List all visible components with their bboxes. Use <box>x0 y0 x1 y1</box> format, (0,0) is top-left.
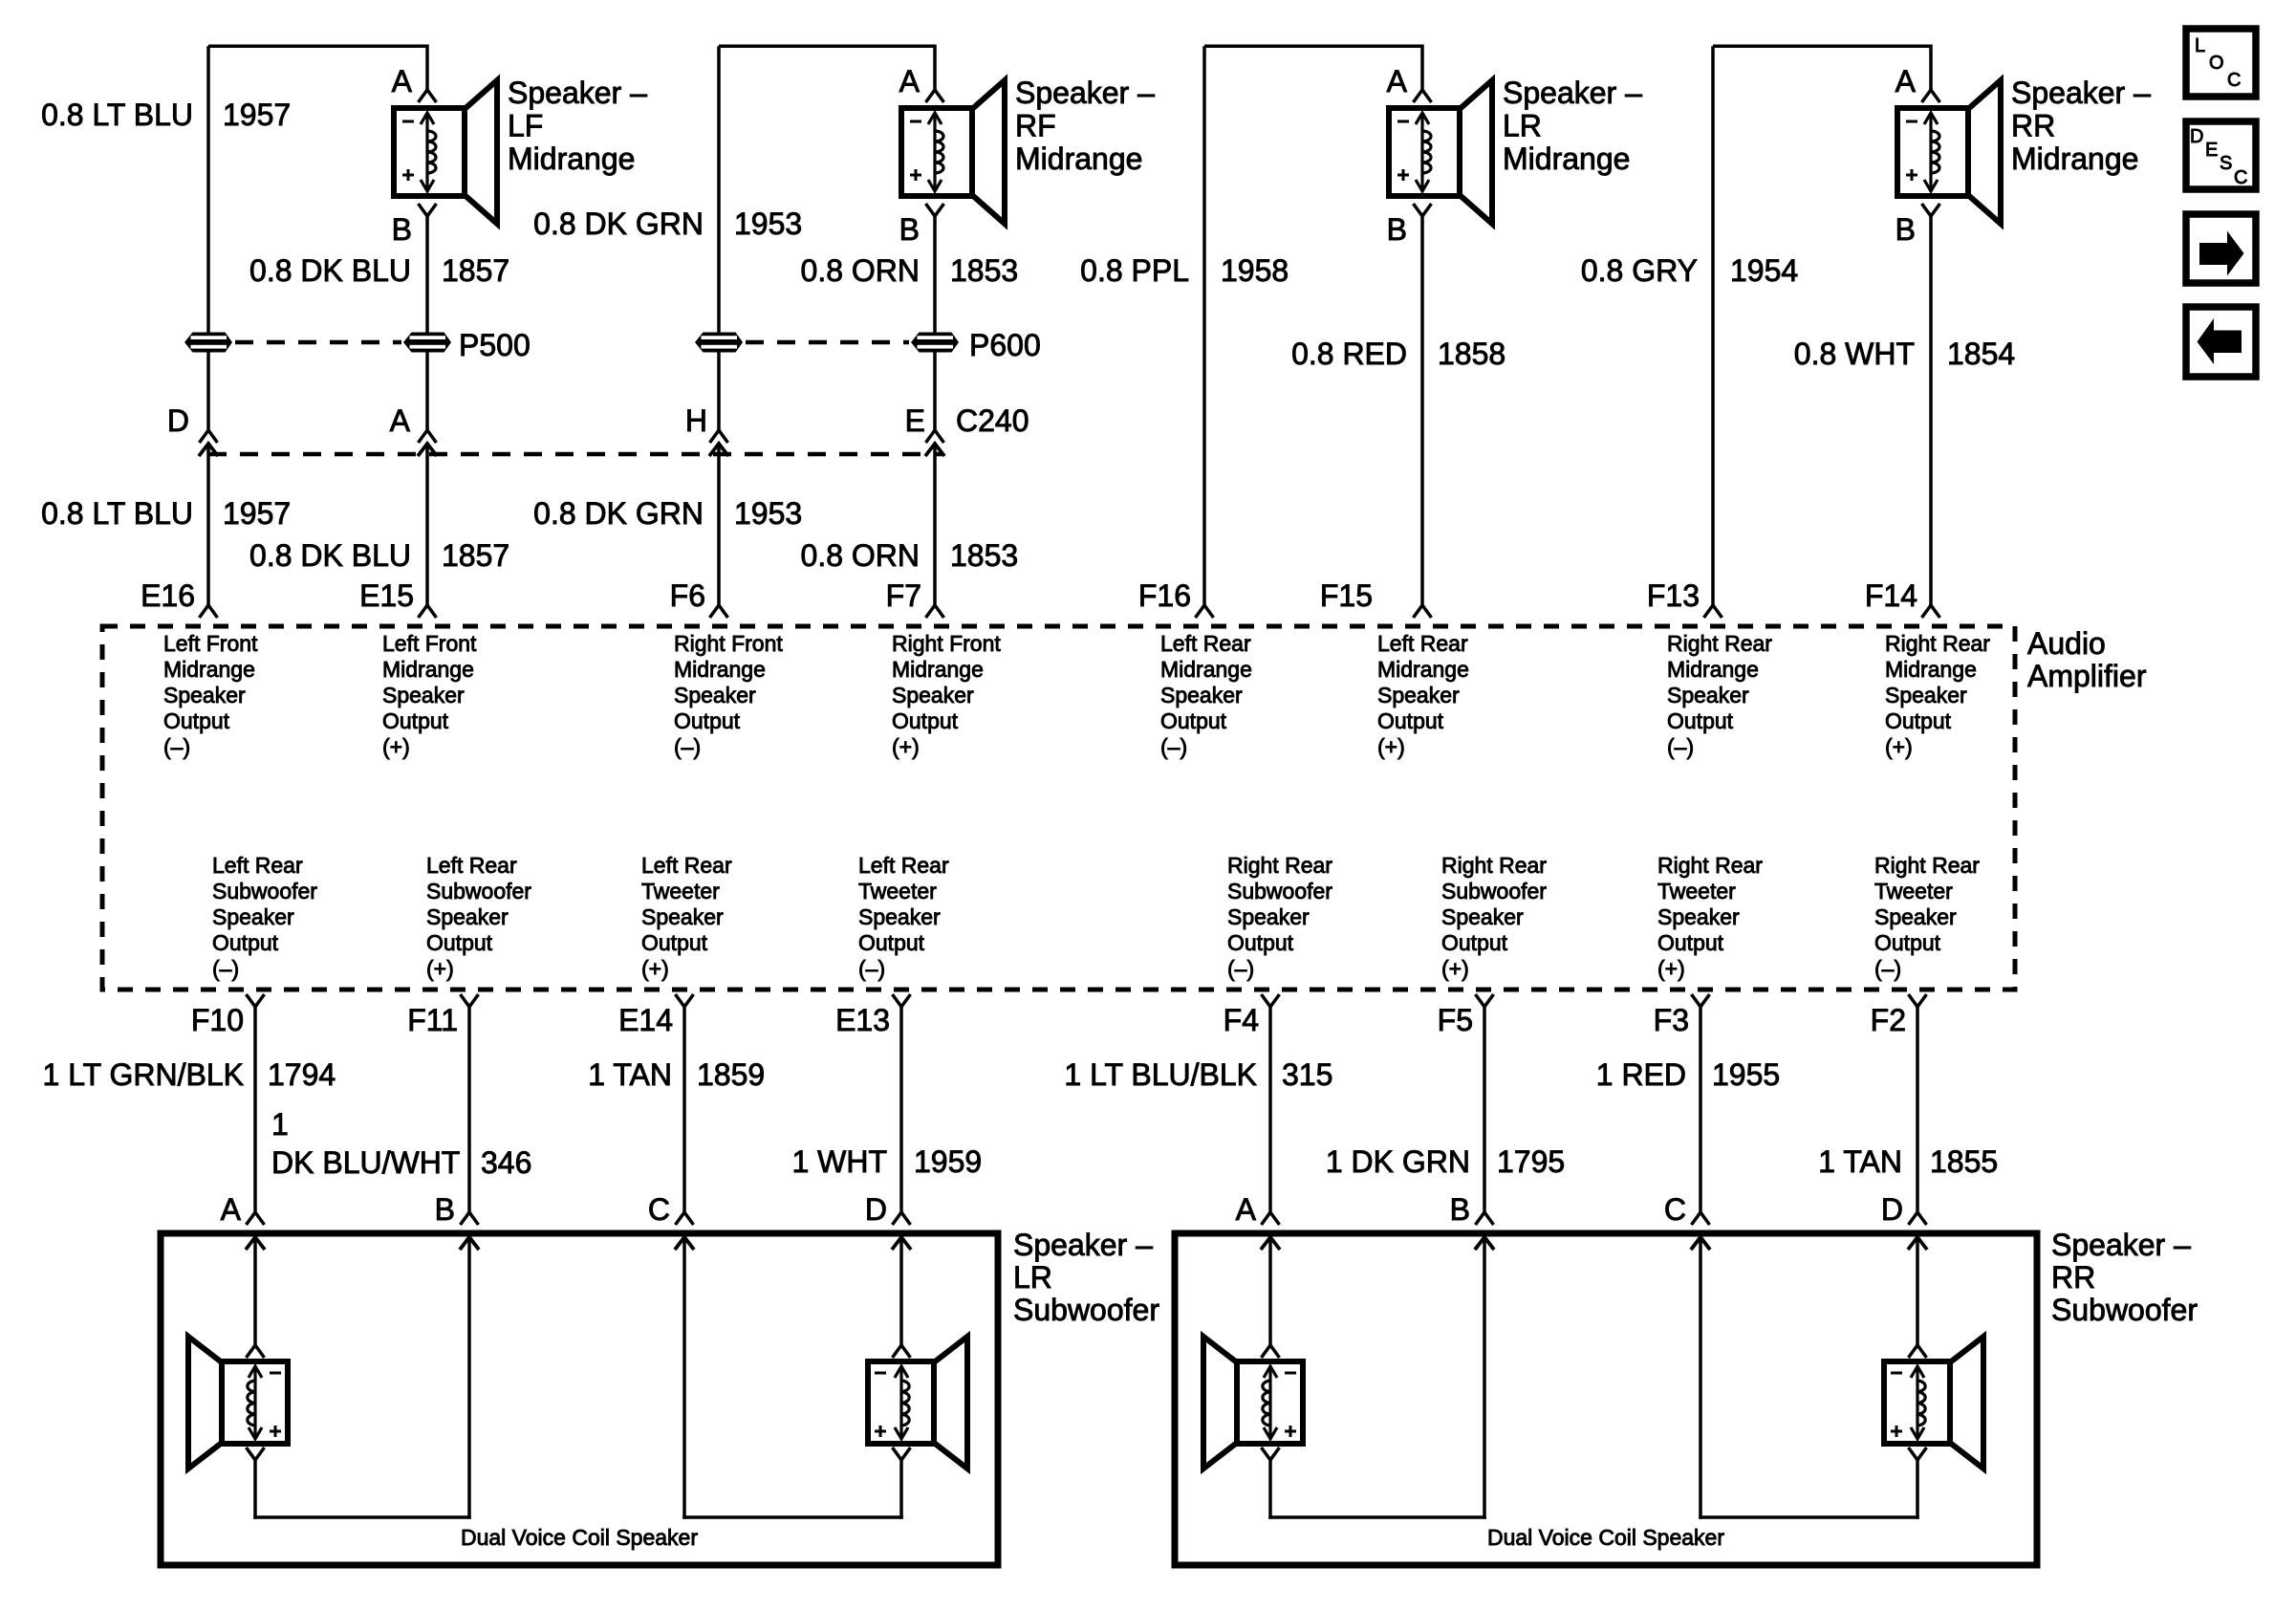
svg-text:Dual Voice Coil Speaker: Dual Voice Coil Speaker <box>461 1525 698 1550</box>
svg-text:1 LT BLU/BLK: 1 LT BLU/BLK <box>1064 1057 1257 1092</box>
svg-text:Tweeter: Tweeter <box>1657 879 1736 903</box>
speaker LR Subwoofer box <box>161 1233 998 1565</box>
svg-text:P600: P600 <box>969 328 1041 362</box>
svg-text:A: A <box>392 64 413 98</box>
svg-text:Speaker –: Speaker – <box>2011 76 2151 110</box>
svg-text:1: 1 <box>271 1107 289 1142</box>
svg-text:Subwoofer: Subwoofer <box>1441 879 1547 903</box>
svg-text:0.8 DK GRN: 0.8 DK GRN <box>533 207 704 241</box>
svg-text:1953: 1953 <box>734 496 802 531</box>
wire A to coil 1 (RR) <box>1268 1237 1272 1345</box>
wire RF positive lead upper <box>933 216 937 334</box>
svg-text:Output: Output <box>1874 930 1941 955</box>
speaker LR Midrange <box>1389 80 1492 224</box>
svg-text:Speaker: Speaker <box>1227 904 1310 929</box>
svg-text:(–): (–) <box>1667 734 1694 759</box>
svg-text:C: C <box>648 1192 670 1227</box>
svg-text:LR: LR <box>1503 109 1542 143</box>
svg-text:1857: 1857 <box>442 253 509 288</box>
subwoofer male terminal arrow F10 wire <box>246 1237 265 1250</box>
svg-text:Midrange: Midrange <box>1160 657 1252 682</box>
wire RF positive lead middle <box>933 352 937 430</box>
wire LF positive lead upper <box>425 216 429 334</box>
svg-text:Speaker –: Speaker – <box>2051 1228 2191 1262</box>
svg-text:H: H <box>685 403 707 438</box>
svg-text:0.8 LT BLU: 0.8 LT BLU <box>41 98 193 132</box>
svg-text:F10: F10 <box>191 1003 244 1037</box>
svg-text:Output: Output <box>1441 930 1508 955</box>
svg-text:(+): (+) <box>641 956 669 981</box>
svg-text:Subwoofer: Subwoofer <box>2051 1293 2198 1327</box>
subwoofer male terminal arrow E14 wire <box>675 1237 694 1250</box>
svg-text:Speaker: Speaker <box>212 904 294 929</box>
svg-text:Tweeter: Tweeter <box>858 879 937 903</box>
svg-text:E15: E15 <box>359 578 414 613</box>
connector C240 male arrow RF negative <box>709 444 728 456</box>
svg-text:1854: 1854 <box>1947 337 2015 371</box>
svg-text:Right Rear: Right Rear <box>1885 631 1990 656</box>
button back (left arrow) <box>2186 307 2256 377</box>
svg-text:Subwoofer: Subwoofer <box>1227 879 1332 903</box>
wire LF negative lead middle <box>206 352 210 430</box>
connector C240 female fork LF negative <box>200 430 218 443</box>
wire RF circuit top jumper <box>719 45 935 49</box>
wire RR circuit top jumper <box>1713 45 1931 49</box>
svg-text:C: C <box>2227 70 2241 91</box>
svg-text:C240: C240 <box>956 403 1029 438</box>
svg-text:346: 346 <box>481 1145 531 1180</box>
svg-text:(+): (+) <box>1885 734 1913 759</box>
svg-text:D: D <box>865 1192 887 1227</box>
connector C240 female fork LF positive <box>419 430 437 443</box>
subwoofer connector fork F3 wire <box>1692 1212 1710 1225</box>
svg-text:1 TAN: 1 TAN <box>588 1057 672 1092</box>
svg-text:0.8 GRY: 0.8 GRY <box>1581 253 1698 288</box>
svg-text:Speaker –: Speaker – <box>1013 1228 1153 1262</box>
subwoofer connector fork E14 wire <box>676 1212 694 1225</box>
svg-text:Dual Voice Coil Speaker: Dual Voice Coil Speaker <box>1487 1525 1724 1550</box>
inline connector grommet LF positive <box>403 333 451 353</box>
wire from pin F10 to subwoofer <box>253 1007 257 1212</box>
amplifier pin F11 fork <box>461 994 479 1007</box>
speaker RF Midrange <box>901 80 1005 224</box>
svg-text:Speaker: Speaker <box>674 683 756 708</box>
svg-text:Subwoofer: Subwoofer <box>1013 1293 1159 1327</box>
svg-text:Output: Output <box>1885 708 1952 733</box>
wire coil 2 return <box>899 1460 903 1519</box>
subwoofer connector fork F11 wire <box>461 1212 479 1225</box>
wire from pin F5 to subwoofer <box>1483 1007 1486 1212</box>
amplifier pin F2 fork <box>1909 994 1927 1007</box>
wire coil 2 return (RR) <box>1916 1460 1919 1519</box>
svg-text:(+): (+) <box>382 734 410 759</box>
svg-text:D: D <box>167 403 189 438</box>
amplifier pin E13 fork <box>893 994 911 1007</box>
inline connector grommet RF negative <box>695 333 743 353</box>
svg-text:B: B <box>392 212 412 247</box>
svg-text:1795: 1795 <box>1497 1144 1565 1179</box>
svg-text:(–): (–) <box>1160 734 1187 759</box>
svg-text:(–): (–) <box>212 956 239 981</box>
svg-text:E13: E13 <box>835 1003 890 1037</box>
wire RF speaker terminal A drop <box>933 45 937 91</box>
svg-text:A: A <box>899 64 921 98</box>
svg-text:A: A <box>390 403 411 438</box>
amplifier pin F10 fork <box>247 994 265 1007</box>
svg-text:Tweeter: Tweeter <box>641 879 720 903</box>
amplifier pin F13 fork <box>1704 605 1722 618</box>
RR subwoofer voice coil 1 (wire A) <box>1203 1337 1303 1469</box>
wire coil 1 return (RR) <box>1268 1460 1272 1519</box>
wire C male arrow (RR) <box>1691 1237 1710 1250</box>
wire C riser (RR) <box>1699 1237 1702 1519</box>
svg-text:(–): (–) <box>1227 956 1254 981</box>
svg-text:(+): (+) <box>1441 956 1469 981</box>
svg-text:C: C <box>1664 1192 1686 1227</box>
svg-text:E16: E16 <box>141 578 195 613</box>
svg-text:(+): (+) <box>426 956 454 981</box>
svg-text:RR: RR <box>2011 109 2055 143</box>
svg-text:Output: Output <box>1227 930 1294 955</box>
svg-text:Speaker: Speaker <box>163 683 246 708</box>
svg-text:Output: Output <box>674 708 741 733</box>
wire from pin E14 to subwoofer <box>682 1007 686 1212</box>
svg-text:Right Front: Right Front <box>892 631 1001 656</box>
connector C240 female fork RF negative <box>710 430 728 443</box>
wire LF positive lead lower <box>425 444 429 605</box>
svg-text:F11: F11 <box>407 1003 458 1037</box>
svg-text:Left Rear: Left Rear <box>641 853 732 878</box>
svg-text:D: D <box>2190 126 2203 147</box>
subwoofer male terminal arrow F4 wire <box>1261 1237 1280 1250</box>
svg-text:1853: 1853 <box>950 538 1018 573</box>
wire from pin F11 to subwoofer <box>467 1007 471 1212</box>
svg-text:Left Rear: Left Rear <box>1377 631 1468 656</box>
svg-text:F6: F6 <box>670 578 705 613</box>
LR subwoofer voice coil 2 (wire D) <box>868 1337 967 1469</box>
svg-text:Speaker: Speaker <box>892 683 974 708</box>
wire LF negative lead lower <box>206 444 210 605</box>
svg-text:Speaker: Speaker <box>1874 904 1957 929</box>
svg-text:0.8 LT BLU: 0.8 LT BLU <box>41 496 193 531</box>
svg-text:B: B <box>899 212 920 247</box>
svg-text:A: A <box>1387 64 1408 98</box>
amplifier pin F14 fork <box>1922 605 1940 618</box>
svg-text:1857: 1857 <box>442 538 509 573</box>
wire coil 1 negative return <box>253 1460 257 1519</box>
wire LR positive lead <box>1420 216 1424 605</box>
svg-text:F3: F3 <box>1654 1003 1689 1037</box>
svg-text:Left Rear: Left Rear <box>1160 631 1251 656</box>
svg-text:P500: P500 <box>459 328 531 362</box>
svg-text:1855: 1855 <box>1930 1144 1998 1179</box>
amplifier pin F4 fork <box>1262 994 1280 1007</box>
wire C riser <box>682 1237 686 1519</box>
svg-text:F4: F4 <box>1224 1003 1259 1037</box>
amplifier pin E16 fork <box>200 605 218 618</box>
svg-text:Speaker: Speaker <box>641 904 724 929</box>
wire B male arrow <box>460 1237 479 1250</box>
svg-text:B: B <box>1387 212 1407 247</box>
wire RF negative lead middle <box>717 352 721 430</box>
svg-text:Speaker –: Speaker – <box>1015 76 1155 110</box>
svg-text:1794: 1794 <box>268 1057 336 1092</box>
svg-text:0.8 DK GRN: 0.8 DK GRN <box>533 496 704 531</box>
svg-text:Output: Output <box>858 930 925 955</box>
LR subwoofer voice coil 1 (wire A) <box>188 1337 288 1469</box>
svg-text:1859: 1859 <box>697 1057 765 1092</box>
svg-text:0.8 DK BLU: 0.8 DK BLU <box>249 538 411 573</box>
svg-text:1 DK GRN: 1 DK GRN <box>1326 1144 1470 1179</box>
svg-text:C: C <box>2234 167 2247 188</box>
svg-text:L: L <box>2195 35 2205 56</box>
svg-text:F16: F16 <box>1138 578 1191 613</box>
svg-text:0.8 WHT: 0.8 WHT <box>1794 337 1915 371</box>
speaker RR Subwoofer box <box>1175 1233 2037 1565</box>
svg-text:Left Rear: Left Rear <box>212 853 303 878</box>
connector C240 male arrow RF positive <box>925 444 944 456</box>
wire B male arrow (RR) <box>1475 1237 1494 1250</box>
svg-text:Speaker: Speaker <box>1667 683 1749 708</box>
wire D to coil 2 <box>899 1237 903 1345</box>
wire from pin E13 to subwoofer <box>899 1007 903 1212</box>
svg-text:Output: Output <box>641 930 708 955</box>
amplifier pin F3 fork <box>1692 994 1710 1007</box>
subwoofer male terminal arrow E13 wire <box>892 1237 911 1250</box>
wire from pin F4 to subwoofer <box>1268 1007 1272 1212</box>
connector P600 dashed link <box>746 340 909 345</box>
wire B riser (RR) <box>1483 1237 1486 1519</box>
svg-text:Midrange: Midrange <box>1015 142 1142 176</box>
amplifier pin E14 fork <box>676 994 694 1007</box>
svg-text:Subwoofer: Subwoofer <box>426 879 531 903</box>
wire RR speaker terminal A drop <box>1929 45 1933 91</box>
svg-text:Output: Output <box>892 708 959 733</box>
wire LF negative lead upper <box>206 46 210 334</box>
amplifier pin F15 fork <box>1414 605 1432 618</box>
svg-text:Left Rear: Left Rear <box>426 853 517 878</box>
svg-text:A: A <box>1236 1192 1257 1227</box>
inline connector grommet LF negative <box>184 333 232 353</box>
svg-text:Right Rear: Right Rear <box>1657 853 1763 878</box>
svg-text:(–): (–) <box>858 956 885 981</box>
wire from pin F2 to subwoofer <box>1916 1007 1919 1212</box>
button LOC <box>2186 29 2256 97</box>
svg-text:1 LT GRN/BLK: 1 LT GRN/BLK <box>43 1057 244 1092</box>
svg-text:Left Front: Left Front <box>382 631 477 656</box>
svg-text:F15: F15 <box>1320 578 1373 613</box>
connector C240 male arrow LF negative <box>199 444 218 456</box>
svg-text:1954: 1954 <box>1730 253 1798 288</box>
wire D to coil 2 (RR) <box>1916 1237 1919 1345</box>
wire LR speaker terminal A drop <box>1420 45 1424 91</box>
svg-text:LR: LR <box>1013 1260 1052 1295</box>
svg-text:RR: RR <box>2051 1260 2095 1295</box>
svg-text:Speaker –: Speaker – <box>508 76 647 110</box>
svg-text:1 TAN: 1 TAN <box>1818 1144 1902 1179</box>
svg-text:Speaker: Speaker <box>1377 683 1460 708</box>
subwoofer connector fork F4 wire <box>1262 1212 1280 1225</box>
svg-text:1853: 1853 <box>950 253 1018 288</box>
wire LF circuit top jumper <box>208 45 427 49</box>
svg-text:Speaker: Speaker <box>1441 904 1524 929</box>
wire C male arrow <box>675 1237 694 1250</box>
svg-text:Midrange: Midrange <box>163 657 255 682</box>
inline connector grommet RF positive <box>911 333 959 353</box>
svg-text:Right Rear: Right Rear <box>1227 853 1332 878</box>
svg-text:Speaker: Speaker <box>382 683 465 708</box>
speaker RR Midrange <box>1897 80 2001 224</box>
svg-text:D: D <box>1881 1192 1903 1227</box>
wire A to coil 1 <box>253 1237 257 1345</box>
svg-text:Midrange: Midrange <box>892 657 984 682</box>
button DESC <box>2186 121 2256 189</box>
svg-text:Left Rear: Left Rear <box>858 853 949 878</box>
wire RR negative lead <box>1711 46 1715 605</box>
svg-text:(+): (+) <box>892 734 920 759</box>
svg-text:E: E <box>905 403 925 438</box>
svg-text:Midrange: Midrange <box>382 657 474 682</box>
wire from pin F3 to subwoofer <box>1699 1007 1702 1212</box>
svg-text:1955: 1955 <box>1712 1057 1780 1092</box>
svg-text:Right Rear: Right Rear <box>1667 631 1772 656</box>
svg-text:Midrange: Midrange <box>508 142 635 176</box>
svg-text:Speaker: Speaker <box>426 904 509 929</box>
svg-text:Midrange: Midrange <box>1377 657 1469 682</box>
svg-text:Output: Output <box>212 930 279 955</box>
subwoofer connector fork F5 wire <box>1476 1212 1494 1225</box>
svg-text:0.8 ORN: 0.8 ORN <box>801 538 920 573</box>
svg-text:Midrange: Midrange <box>1667 657 1759 682</box>
svg-text:Midrange: Midrange <box>1503 142 1630 176</box>
svg-text:E: E <box>2205 140 2218 161</box>
connector C240 male arrow LF positive <box>418 444 437 456</box>
amplifier pin F16 fork <box>1196 605 1214 618</box>
audio amplifier U1 dashed box <box>102 626 2015 990</box>
svg-text:Amplifier: Amplifier <box>2027 659 2147 693</box>
svg-text:(–): (–) <box>674 734 701 759</box>
svg-text:0.8 RED: 0.8 RED <box>1291 337 1407 371</box>
svg-text:Tweeter: Tweeter <box>1874 879 1953 903</box>
subwoofer male terminal arrow F3 wire <box>1691 1237 1710 1250</box>
svg-text:Output: Output <box>1160 708 1227 733</box>
svg-text:(+): (+) <box>1377 734 1405 759</box>
subwoofer male terminal arrow F11 wire <box>460 1237 479 1250</box>
wire RF negative lead lower <box>717 444 721 605</box>
svg-text:1958: 1958 <box>1221 253 1289 288</box>
svg-text:Speaker: Speaker <box>1885 683 1967 708</box>
svg-text:F14: F14 <box>1865 578 1917 613</box>
svg-text:F5: F5 <box>1438 1003 1473 1037</box>
svg-text:LF: LF <box>508 109 543 143</box>
svg-text:Right Rear: Right Rear <box>1441 853 1547 878</box>
amplifier pin F7 fork <box>926 605 944 618</box>
svg-text:A: A <box>1895 64 1917 98</box>
subwoofer connector fork E13 wire <box>893 1212 911 1225</box>
svg-text:Right Front: Right Front <box>674 631 783 656</box>
svg-text:B: B <box>435 1192 455 1227</box>
svg-text:F7: F7 <box>886 578 921 613</box>
svg-text:1858: 1858 <box>1438 337 1505 371</box>
svg-text:Speaker: Speaker <box>1160 683 1243 708</box>
wire RF positive lead lower <box>933 444 937 605</box>
svg-text:0.8 DK BLU: 0.8 DK BLU <box>249 253 411 288</box>
svg-text:1 RED: 1 RED <box>1596 1057 1686 1092</box>
svg-text:E14: E14 <box>618 1003 673 1037</box>
svg-text:(–): (–) <box>1874 956 1901 981</box>
wire LF positive lead middle <box>425 352 429 430</box>
button next (right arrow) <box>2186 214 2256 283</box>
svg-text:DK BLU/WHT: DK BLU/WHT <box>271 1145 460 1180</box>
svg-text:(+): (+) <box>1657 956 1685 981</box>
wire RR positive lead <box>1929 216 1933 605</box>
wire LF speaker terminal A drop <box>425 45 429 91</box>
svg-text:O: O <box>2209 53 2224 74</box>
subwoofer connector fork F2 wire <box>1909 1212 1927 1225</box>
svg-text:A: A <box>221 1192 242 1227</box>
svg-text:Right Rear: Right Rear <box>1874 853 1980 878</box>
subwoofer male terminal arrow F5 wire <box>1475 1237 1494 1250</box>
subwoofer male terminal arrow F2 wire <box>1908 1237 1927 1250</box>
svg-text:1953: 1953 <box>734 207 802 241</box>
svg-text:Midrange: Midrange <box>1885 657 1977 682</box>
svg-text:Output: Output <box>163 708 230 733</box>
svg-text:1959: 1959 <box>914 1144 982 1179</box>
wire LR negative lead <box>1202 46 1206 605</box>
svg-text:1957: 1957 <box>223 98 291 132</box>
svg-text:B: B <box>1450 1192 1470 1227</box>
wire LR circuit top jumper <box>1204 45 1422 49</box>
svg-text:(–): (–) <box>163 734 190 759</box>
wire RF negative lead upper <box>717 46 721 334</box>
connector C240 dashed boundary <box>208 452 942 457</box>
svg-text:Output: Output <box>1377 708 1444 733</box>
connector C240 female fork RF positive <box>926 430 944 443</box>
svg-text:Output: Output <box>1667 708 1734 733</box>
svg-text:0.8 ORN: 0.8 ORN <box>801 253 920 288</box>
amplifier pin F5 fork <box>1476 994 1494 1007</box>
RR subwoofer voice coil 2 (wire D) <box>1884 1337 1983 1469</box>
subwoofer connector fork F10 wire <box>247 1212 265 1225</box>
svg-text:Speaker: Speaker <box>1657 904 1740 929</box>
amplifier pin F6 fork <box>710 605 728 618</box>
svg-text:Audio: Audio <box>2027 626 2106 661</box>
svg-text:B: B <box>1895 212 1916 247</box>
svg-text:RF: RF <box>1015 109 1056 143</box>
svg-text:1957: 1957 <box>223 496 291 531</box>
svg-text:Speaker –: Speaker – <box>1503 76 1642 110</box>
svg-text:Subwoofer: Subwoofer <box>212 879 317 903</box>
svg-text:Speaker: Speaker <box>858 904 941 929</box>
svg-text:S: S <box>2220 153 2232 174</box>
connector P500 dashed link <box>235 340 401 345</box>
svg-text:Midrange: Midrange <box>2011 142 2138 176</box>
svg-text:1 WHT: 1 WHT <box>791 1144 887 1179</box>
amplifier pin E15 fork <box>419 605 437 618</box>
svg-text:Midrange: Midrange <box>674 657 766 682</box>
svg-text:Output: Output <box>1657 930 1724 955</box>
svg-text:Output: Output <box>426 930 493 955</box>
svg-text:Left Front: Left Front <box>163 631 258 656</box>
svg-text:Output: Output <box>382 708 449 733</box>
speaker LF Midrange <box>394 80 497 224</box>
svg-text:F13: F13 <box>1647 578 1700 613</box>
svg-text:315: 315 <box>1282 1057 1332 1092</box>
svg-text:F2: F2 <box>1871 1003 1906 1037</box>
svg-text:0.8 PPL: 0.8 PPL <box>1080 253 1189 288</box>
wire B riser <box>467 1237 471 1519</box>
